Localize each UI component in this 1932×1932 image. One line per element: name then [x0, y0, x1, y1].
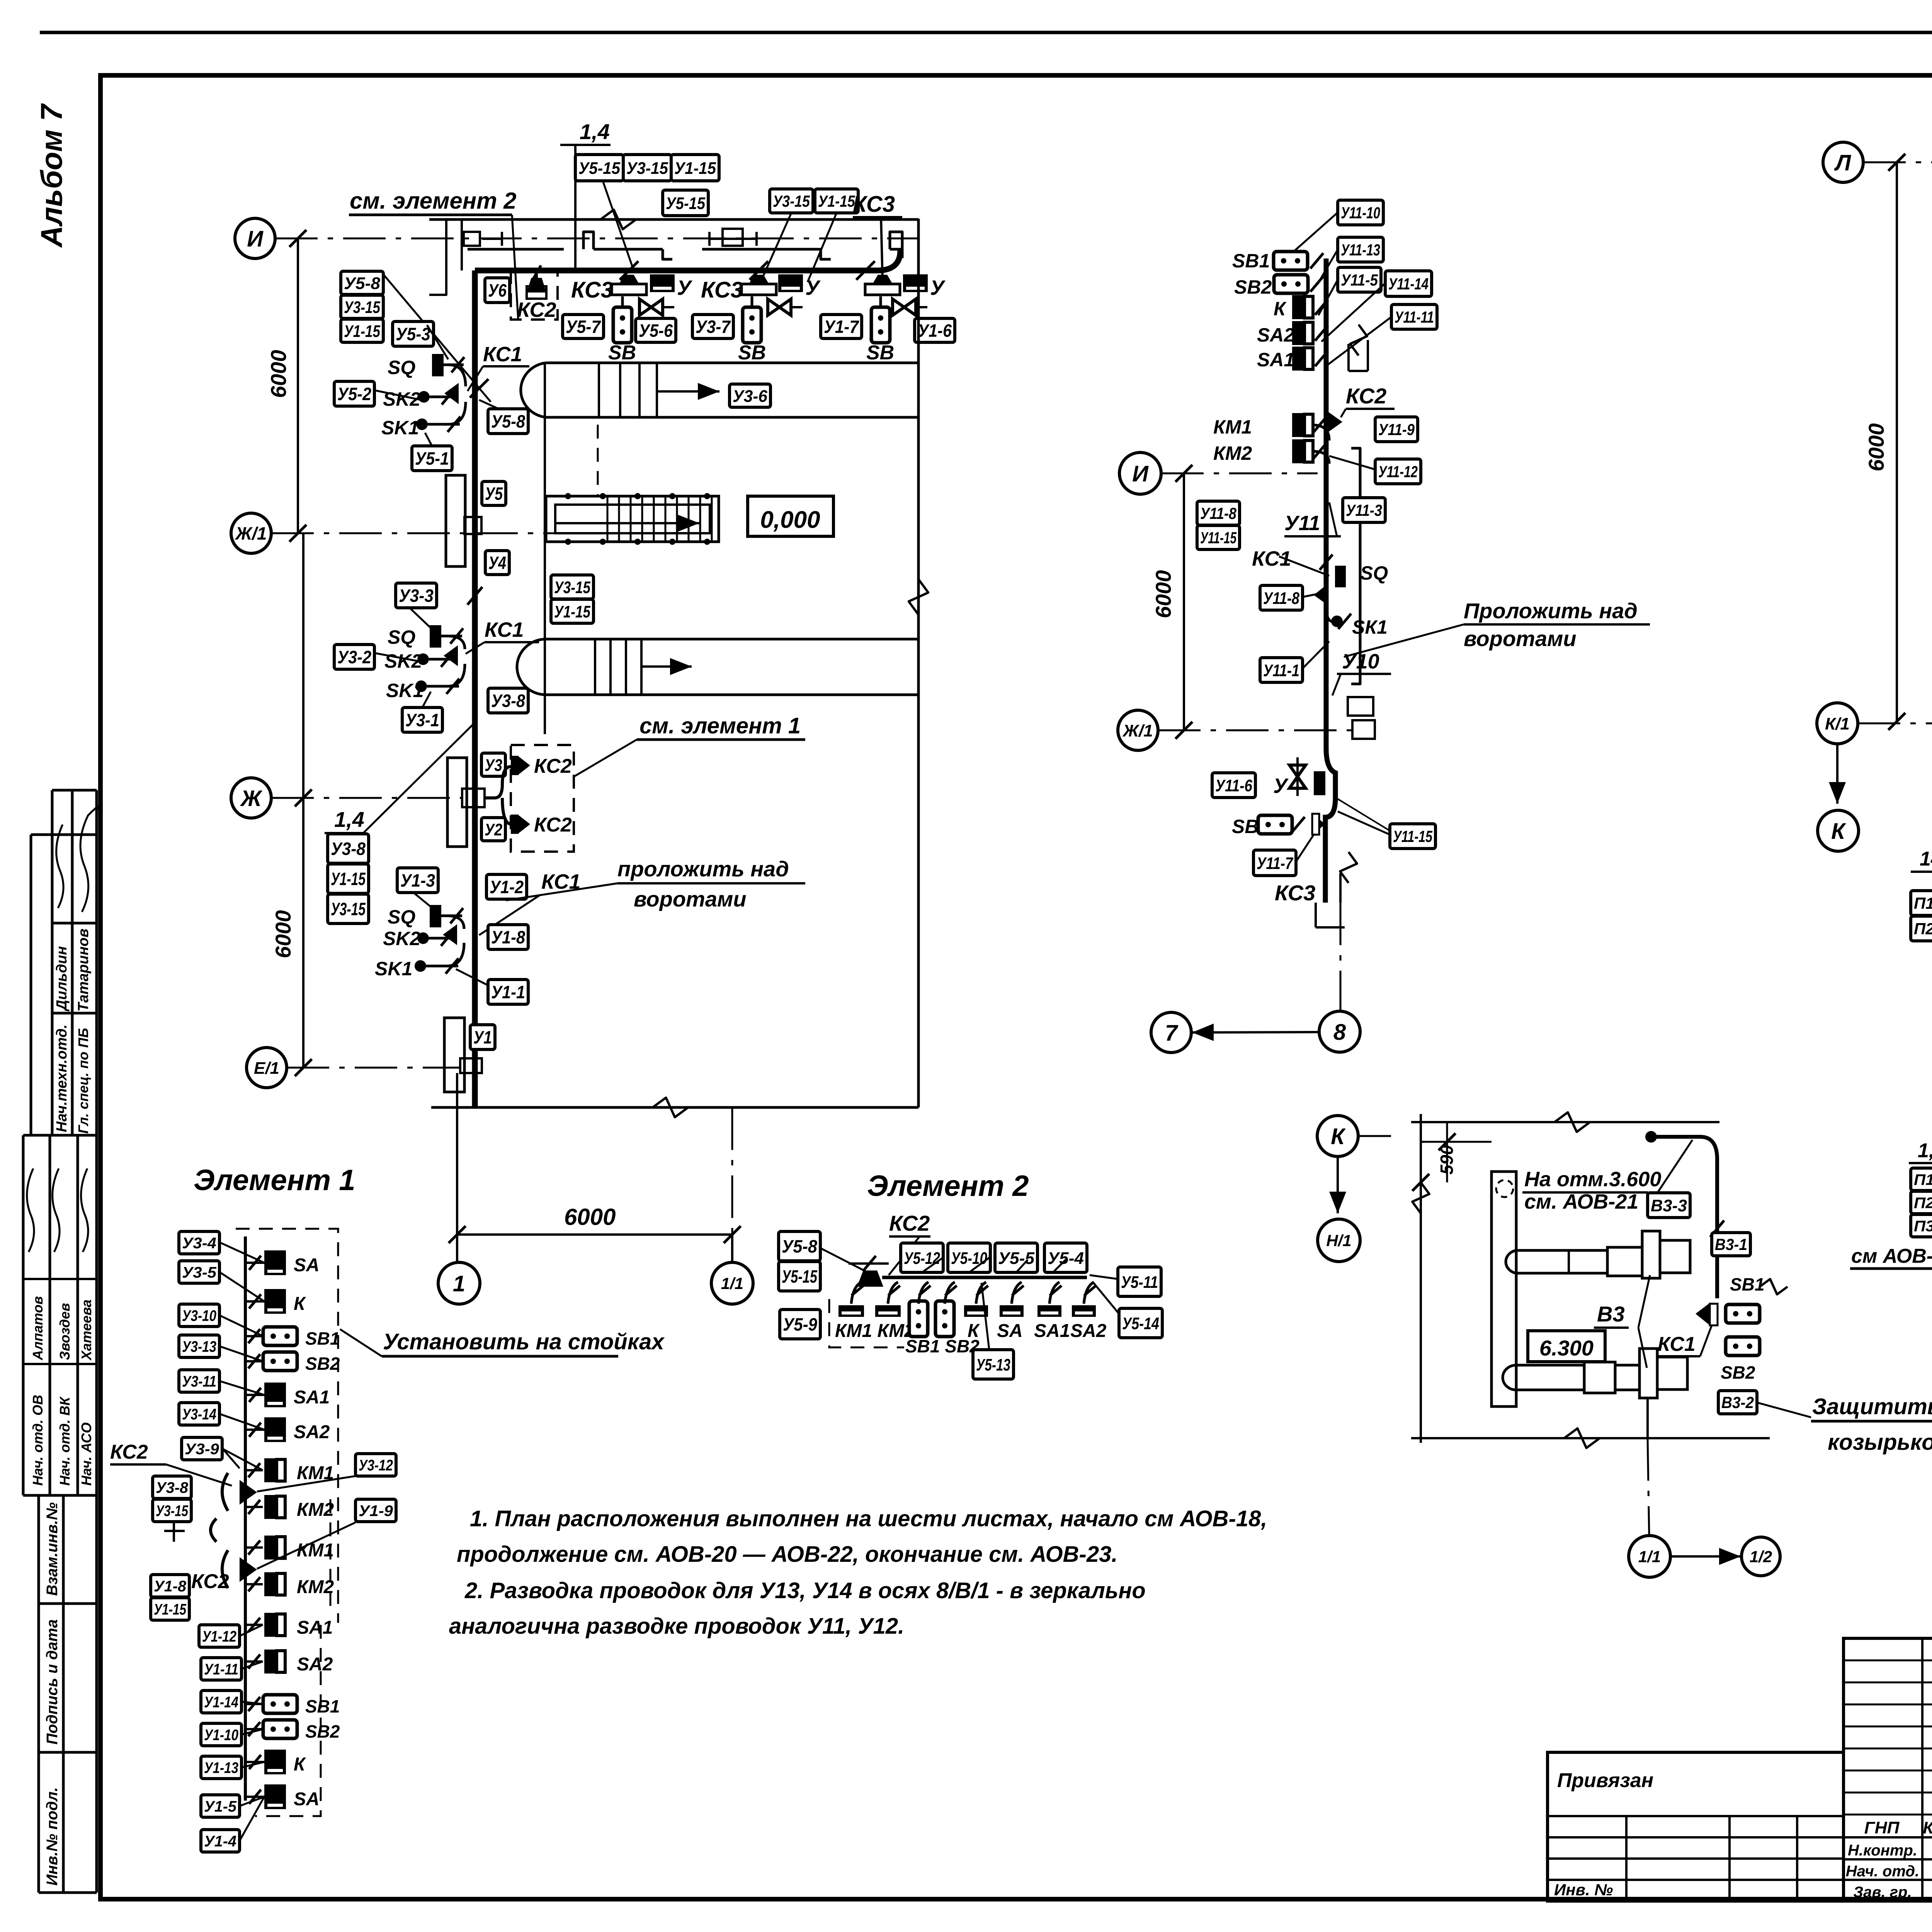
КС2 symbol lower — [518, 815, 530, 834]
svg-text:КС2: КС2 — [534, 814, 572, 836]
B3 drop to 1/1 — [1646, 1398, 1649, 1438]
svg-text:У: У — [1273, 774, 1289, 798]
svg-text:П3-1: П3-1 — [1914, 1218, 1932, 1235]
У3-8 У3-15 boxes element1 — [153, 1476, 191, 1498]
svg-text:SА2: SА2 — [1257, 324, 1294, 346]
svg-text:У3-15: У3-15 — [344, 298, 380, 317]
svg-text:У5-8: У5-8 — [782, 1236, 817, 1257]
svg-text:2. Разводка проводок для У1: 2. Разводка проводок для У13, У14 в осях… — [464, 1578, 1146, 1603]
svg-text:У5-14: У5-14 — [1122, 1314, 1159, 1333]
svg-text:SВ1: SВ1 — [305, 1696, 340, 1716]
У1 pilaster bottom — [444, 1018, 464, 1092]
svg-text:У3-4: У3-4 — [182, 1235, 216, 1252]
svg-text:SQ: SQ — [1360, 562, 1388, 584]
svg-text:П2-1: П2-1 — [1914, 920, 1932, 938]
У11-7 box — [1253, 850, 1296, 876]
label box У3-14 — [179, 1403, 219, 1425]
У5-8 У5-15 boxes element2 — [779, 1231, 820, 1261]
svg-text:У5-8: У5-8 — [491, 412, 525, 432]
stamp signatures block2 — [27, 1168, 34, 1252]
svg-text:КМ1 КМ2: КМ1 КМ2 — [835, 1321, 915, 1341]
svg-text:SА2: SА2 — [294, 1422, 330, 1442]
svg-text:У5-7: У5-7 — [566, 317, 601, 337]
svg-text:У1-10: У1-10 — [204, 1726, 238, 1743]
svg-text:У6: У6 — [488, 281, 507, 301]
svg-text:У5-1: У5-1 — [415, 449, 449, 469]
label box У5-15 single — [663, 190, 708, 216]
svg-text:SВ1: SВ1 — [1232, 250, 1270, 272]
svg-text:У5-8: У5-8 — [344, 274, 381, 293]
svg-text:воротами: воротами — [634, 887, 747, 911]
B3 bottom line — [1411, 1437, 1770, 1439]
У5-12 У5-10 У5-5 У5-4 box row — [901, 1243, 943, 1272]
элемент1 spine wire — [244, 1236, 247, 1801]
У11-11 box — [1391, 304, 1437, 329]
axis circle Ж/1 left plan — [231, 513, 271, 553]
svg-text:К: К — [1331, 1124, 1346, 1149]
svg-text:SА1: SА1 — [1257, 349, 1294, 371]
thick wire top horizontal — [475, 250, 900, 270]
svg-text:SВ: SВ — [608, 342, 636, 364]
circle Н/1 — [1318, 1219, 1360, 1262]
circle 1/2 bottom — [1742, 1537, 1780, 1576]
svg-text:У3-9: У3-9 — [185, 1440, 219, 1458]
right plan axis К/1 circle — [1817, 703, 1858, 744]
svg-text:SВ1: SВ1 — [1730, 1274, 1764, 1294]
circle 7 with arrow from 8 — [1151, 1012, 1191, 1053]
arrow К/1 to К — [1836, 744, 1838, 804]
svg-text:Альбом 7: Альбом 7 — [34, 103, 68, 248]
svg-text:У11-8: У11-8 — [1263, 589, 1299, 608]
У11-8 У11-15 boxes — [1197, 501, 1240, 525]
svg-text:У11-15: У11-15 — [1393, 827, 1432, 845]
central pit with dots — [546, 496, 719, 542]
axis circle Е/1 left plan — [247, 1048, 287, 1088]
svg-text:Л: Л — [1834, 150, 1851, 175]
B3 detail top line — [1411, 1121, 1719, 1123]
У5-13 box element2 — [973, 1350, 1014, 1379]
У11-8 box lower — [1260, 585, 1303, 610]
svg-text:1: 1 — [453, 1271, 465, 1296]
svg-text:1,4: 1,4 — [580, 119, 610, 144]
У1-3 box — [397, 868, 438, 893]
svg-text:Элемент 1: Элемент 1 — [194, 1164, 355, 1197]
svg-text:У1-15: У1-15 — [554, 602, 590, 621]
КС2 symbol lower element1 — [240, 1557, 257, 1582]
svg-text:В3-2: В3-2 — [1721, 1393, 1754, 1412]
bottom dimension line with circles 1 and 1/1 — [456, 1107, 458, 1235]
svg-text:П2-1: П2-1 — [1914, 1194, 1932, 1211]
SA comp2 — [264, 1784, 286, 1809]
svg-text:Нач. отд. ВК: Нач. отд. ВК — [57, 1396, 73, 1486]
У1-5 box — [201, 1795, 240, 1817]
svg-text:На отм.3.600: На отм.3.600 — [1524, 1168, 1661, 1191]
left stamp second block grid — [22, 1135, 25, 1495]
dash-dot down to circle 8 — [1340, 903, 1342, 1011]
svg-text:П1-1: П1-1 — [1914, 894, 1932, 912]
svg-text:Привязан: Привязан — [1557, 1769, 1653, 1792]
У1-2 box — [486, 874, 527, 899]
svg-text:ГНП: ГНП — [1864, 1818, 1900, 1837]
kc3 valve module U1 on top wall — [865, 275, 900, 295]
B3 wall bar — [1492, 1172, 1516, 1406]
element2 leader lines — [922, 1258, 943, 1272]
У5-3 box — [393, 321, 434, 346]
svg-text:6000: 6000 — [1864, 423, 1888, 471]
У1-11 box — [201, 1658, 241, 1680]
svg-text:П1-1: П1-1 — [1914, 1171, 1932, 1188]
элемент1 К component — [264, 1289, 286, 1314]
label box У3-9 — [182, 1437, 222, 1460]
svg-text:Дильдин: Дильдин — [54, 946, 70, 1012]
svg-text:У3-7: У3-7 — [696, 317, 731, 337]
svg-text:Защитить металлическим: Защитить металлическим — [1812, 1394, 1932, 1419]
КС2 triangle on spine — [1326, 410, 1342, 434]
У5-2 box — [334, 381, 374, 406]
middle plan axis И circle — [1119, 452, 1161, 494]
У11-13 box — [1338, 237, 1383, 262]
svg-text:Нач. отд. ОВ: Нач. отд. ОВ — [30, 1395, 46, 1486]
К comp2 — [264, 1750, 286, 1774]
У3-15 У1-15 boxes mid — [551, 575, 594, 599]
wire detail near Ж — [485, 767, 511, 798]
svg-text:SK1: SK1 — [375, 958, 412, 980]
svg-text:КС2: КС2 — [889, 1211, 930, 1235]
svg-text:У11-9: У11-9 — [1378, 420, 1415, 439]
К SA SA1 SA2 blocks element2 — [964, 1305, 988, 1317]
svg-text:У10: У10 — [1342, 650, 1379, 673]
svg-text:КС3: КС3 — [571, 277, 613, 303]
svg-text:Каростелев: Каростелев — [1923, 1818, 1932, 1837]
svg-text:продолжение см. АОВ-20 — АОВ: продолжение см. АОВ-20 — АОВ-22, окончан… — [457, 1542, 1117, 1567]
У1 door rect — [460, 1058, 482, 1073]
svg-text:SQ: SQ — [388, 906, 415, 928]
svg-text:У11-6: У11-6 — [1215, 776, 1252, 795]
axis И dash-dot line — [275, 238, 918, 240]
svg-text:6000: 6000 — [271, 910, 295, 958]
У1-1 box — [488, 980, 528, 1004]
SA1 comp2 element1 — [264, 1613, 285, 1637]
svg-text:КМ1: КМ1 — [1213, 416, 1252, 438]
svg-text:КС1: КС1 — [483, 343, 522, 366]
svg-text:У11-10: У11-10 — [1341, 204, 1380, 222]
svg-text:Взам.инв.№: Взам.инв.№ — [44, 1502, 61, 1596]
svg-text:SВ2: SВ2 — [305, 1721, 340, 1742]
svg-text:И: И — [247, 226, 264, 252]
middle Ж/1 dash-dot — [1158, 730, 1359, 731]
svg-text:6000: 6000 — [266, 350, 291, 398]
middle plan axis Ж/1 circle — [1118, 710, 1158, 750]
south wall of left building — [431, 1106, 918, 1109]
leader lines from label row to wall — [603, 181, 634, 270]
svg-text:У11-11: У11-11 — [1395, 308, 1434, 326]
svg-text:У1-15: У1-15 — [154, 1601, 187, 1618]
svg-text:Нач. отд.: Нач. отд. — [1846, 1863, 1919, 1880]
svg-text:1/2: 1/2 — [1750, 1548, 1772, 1566]
У1-13 box — [201, 1756, 241, 1779]
svg-text:К: К — [1831, 819, 1846, 844]
svg-text:Нач. АСО: Нач. АСО — [78, 1422, 94, 1486]
У4 box — [485, 551, 509, 575]
svg-text:SА1: SА1 — [1034, 1321, 1070, 1341]
svg-text:У1-1: У1-1 — [491, 982, 525, 1002]
svg-text:У1-8: У1-8 — [154, 1578, 187, 1595]
svg-text:И: И — [1132, 461, 1149, 486]
element2 riser wires — [851, 1282, 861, 1304]
svg-text:У5: У5 — [485, 484, 503, 504]
second КМ pair element1 — [264, 1536, 285, 1560]
У5-9 box element2 — [780, 1310, 820, 1339]
B3 SB2 connector — [1726, 1337, 1760, 1355]
У5-8 У3-15 У1-15 stacked boxes — [341, 271, 383, 294]
У5-8 lower box — [488, 409, 528, 434]
svg-text:Н.контр.: Н.контр. — [1848, 1842, 1917, 1859]
элемент1 dashed bracket right — [236, 1229, 338, 1623]
inspection pit capsule 3 — [517, 639, 918, 695]
svg-text:У5-4: У5-4 — [1048, 1249, 1084, 1268]
right plan left vertical dim line — [1896, 162, 1898, 721]
svg-text:К: К — [1274, 298, 1287, 320]
svg-text:К/1: К/1 — [1825, 714, 1850, 733]
svg-text:SВ: SВ — [1232, 816, 1259, 837]
svg-text:SK1: SK1 — [381, 417, 419, 439]
У1-12 box element1 — [199, 1625, 240, 1647]
west wall pilaster and door — [446, 475, 465, 566]
svg-text:6000: 6000 — [1151, 570, 1175, 618]
svg-text:Инв. №: Инв. № — [1554, 1881, 1613, 1899]
svg-text:У1-2: У1-2 — [490, 877, 524, 897]
У3-8 У1-15 У3-15 stacked boxes — [328, 834, 369, 863]
svg-text:У3-10: У3-10 — [182, 1307, 216, 1324]
У3 box — [481, 753, 505, 776]
svg-text:У5-13: У5-13 — [976, 1355, 1010, 1374]
svg-text:У: У — [930, 276, 946, 299]
У1-10 box — [201, 1723, 241, 1746]
элемент1 КМ1 component — [264, 1458, 285, 1482]
У11-9 box — [1375, 417, 1418, 442]
svg-text:У1-15: У1-15 — [331, 869, 366, 889]
B3 thick feed wire — [1645, 1131, 1657, 1143]
circle К middle — [1317, 1116, 1358, 1156]
svg-text:Ж/1: Ж/1 — [1122, 721, 1153, 740]
У3 cluster boxes — [396, 583, 437, 608]
door symbol middle — [709, 238, 757, 240]
svg-text:У1-15: У1-15 — [674, 159, 716, 178]
SB2 conn2 — [263, 1720, 297, 1738]
label box У3-13 — [179, 1335, 219, 1357]
svg-text:У1-14: У1-14 — [204, 1694, 238, 1711]
svg-text:У11-1: У11-1 — [1263, 661, 1299, 680]
svg-text:8: 8 — [1333, 1020, 1346, 1045]
У11-3 box — [1343, 498, 1385, 522]
svg-text:1. План расположения выполнен: 1. План расположения выполнен на шести л… — [470, 1506, 1267, 1531]
svg-text:SА: SА — [294, 1255, 320, 1276]
svg-text:SQ: SQ — [388, 626, 415, 648]
svg-text:У1-15: У1-15 — [344, 322, 380, 341]
svg-text:Алпатов: Алпатов — [30, 1296, 46, 1361]
label box У3-10 — [179, 1304, 219, 1327]
element2 horizontal wire — [882, 1276, 1087, 1279]
svg-text:14: 14 — [1920, 848, 1932, 870]
svg-text:У1-3: У1-3 — [400, 871, 435, 891]
svg-text:У11-13: У11-13 — [1341, 241, 1380, 259]
svg-text:SВ: SВ — [866, 342, 894, 364]
У5-11 box element2 — [1118, 1267, 1161, 1296]
svg-text:КС1: КС1 — [1658, 1333, 1696, 1355]
svg-text:У1-8: У1-8 — [491, 927, 525, 947]
stamp signature Дильдин — [56, 825, 63, 908]
svg-text:SА1: SА1 — [294, 1387, 330, 1408]
svg-text:У3-5: У3-5 — [182, 1264, 217, 1281]
svg-text:У5-15: У5-15 — [782, 1267, 818, 1287]
КС1 triangle symbol U5 — [444, 383, 459, 404]
label box У3-5 — [179, 1261, 219, 1283]
У1-8 box — [488, 925, 528, 949]
stamp signature Татаринов — [80, 806, 99, 912]
SB1 conn2 — [263, 1695, 297, 1713]
title block: Привязан table — [1548, 1752, 1844, 1901]
svg-text:У11: У11 — [1284, 512, 1320, 535]
У5-14 box element2 — [1119, 1308, 1162, 1338]
svg-text:КС2: КС2 — [1346, 384, 1386, 408]
svg-text:У3-14: У3-14 — [182, 1406, 216, 1423]
svg-text:У2: У2 — [485, 820, 502, 839]
svg-text:У11-8: У11-8 — [1200, 504, 1237, 522]
svg-text:SВ2: SВ2 — [1234, 276, 1272, 298]
svg-text:SK2: SK2 — [383, 928, 420, 949]
элемент1 SA2 component — [264, 1417, 286, 1442]
svg-text:КС2: КС2 — [517, 298, 556, 321]
svg-text:К: К — [294, 1754, 306, 1775]
svg-text:Хатеева: Хатеева — [78, 1299, 94, 1361]
door symbol left — [464, 232, 480, 246]
svg-text:SQ: SQ — [388, 357, 415, 378]
КС2 dashed box and symbol — [511, 270, 558, 320]
svg-text:SВ2: SВ2 — [305, 1354, 340, 1374]
axis Ж/1 dash-dot line — [271, 532, 603, 534]
svg-text:Нач.техн.отд.: Нач.техн.отд. — [54, 1024, 70, 1132]
КС2 wire break symbol — [1347, 344, 1350, 371]
dashed bracket element2 — [829, 1299, 904, 1347]
КС1 symbol B3 — [1696, 1303, 1710, 1325]
wall pilaster at Ж axis — [447, 758, 467, 847]
svg-text:воротами: воротами — [1464, 626, 1577, 651]
svg-text:У3-3: У3-3 — [399, 586, 434, 606]
svg-text:У11-7: У11-7 — [1257, 854, 1294, 873]
svg-text:проложить над: проложить над — [617, 857, 789, 881]
svg-text:В3-3: В3-3 — [1651, 1196, 1687, 1215]
У11-14 box — [1385, 271, 1432, 296]
svg-text:КМ2: КМ2 — [297, 1577, 334, 1597]
svg-text:Н/1: Н/1 — [1326, 1231, 1351, 1250]
элемент1 SB1 connector — [263, 1327, 297, 1345]
svg-text:SА1: SА1 — [297, 1617, 333, 1638]
svg-text:SВ1: SВ1 — [305, 1328, 340, 1349]
У1-14 box — [201, 1690, 241, 1713]
right plan axis Л circle — [1823, 142, 1863, 182]
label box У3-4 — [179, 1231, 219, 1254]
У11-12 box — [1375, 459, 1421, 484]
leader lines element1 left boxes — [219, 1242, 264, 1263]
svg-text:Зав. гр.: Зав. гр. — [1853, 1884, 1912, 1901]
svg-text:SА: SА — [294, 1789, 320, 1810]
У1-4 box — [201, 1830, 240, 1852]
У3-6 box — [730, 384, 770, 407]
SA2 comp2 — [264, 1650, 285, 1673]
svg-text:Установить на стойках: Установить на стойках — [383, 1329, 665, 1354]
axis Ж dash-dot line — [271, 797, 462, 799]
SB1 SB2 connectors element2 — [909, 1301, 928, 1337]
svg-text:У3-2: У3-2 — [337, 647, 371, 667]
svg-text:У3-8: У3-8 — [156, 1479, 189, 1496]
svg-text:У3-11: У3-11 — [182, 1373, 216, 1390]
svg-text:6.300: 6.300 — [1539, 1336, 1594, 1360]
wire vertical bottom segment — [456, 1073, 458, 1107]
svg-text:У3-15: У3-15 — [331, 899, 366, 919]
У3-1 box — [402, 707, 442, 732]
svg-text:КС2: КС2 — [110, 1441, 148, 1463]
axis circle И left plan — [235, 218, 275, 259]
svg-text:см. элемент 1: см. элемент 1 — [639, 713, 801, 738]
svg-text:6000: 6000 — [564, 1204, 616, 1230]
элемент1 SA component — [264, 1250, 286, 1275]
svg-text:У5-10: У5-10 — [951, 1249, 987, 1268]
svg-text:У3-15: У3-15 — [554, 578, 590, 597]
inspection pit capsule 1 — [521, 363, 918, 417]
элемент1 dashed view box — [511, 745, 574, 852]
svg-text:У5-5: У5-5 — [998, 1249, 1035, 1268]
axis Е/1 dash-dot line — [287, 1067, 461, 1069]
svg-text:У5-11: У5-11 — [1121, 1273, 1158, 1292]
КС2 trapezoid symbol element2 — [857, 1270, 883, 1287]
П1-1 П2-1 stacked boxes left — [1911, 891, 1932, 915]
svg-text:У1-12: У1-12 — [202, 1628, 236, 1645]
svg-text:У1-13: У1-13 — [204, 1759, 238, 1776]
middle И dash-dot — [1161, 473, 1318, 474]
svg-text:аналогична разводке проводок: аналогична разводке проводок У11, У12. — [449, 1614, 904, 1639]
элемент1 КМ2 component — [264, 1495, 285, 1519]
B3 detail left dim line — [1420, 1114, 1422, 1443]
building wall right of spine — [1351, 448, 1360, 684]
svg-text:см АОВ-21: см АОВ-21 — [1851, 1245, 1932, 1267]
КС1 triangle mid — [1314, 584, 1328, 605]
left top pilaster niche — [429, 219, 446, 295]
svg-text:У5-2: У5-2 — [337, 384, 371, 404]
В3-2 box — [1718, 1391, 1757, 1414]
У6 box — [485, 278, 510, 303]
svg-text:Звоздев: Звоздев — [57, 1303, 73, 1360]
svg-text:SВ2: SВ2 — [1721, 1362, 1755, 1383]
svg-text:см. АОВ-21: см. АОВ-21 — [1524, 1190, 1638, 1213]
svg-text:Подпись и дата: Подпись и дата — [44, 1619, 61, 1745]
left building north wall — [429, 218, 918, 221]
svg-text:В3-1: В3-1 — [1715, 1235, 1747, 1253]
svg-text:У3-1: У3-1 — [405, 710, 439, 730]
svg-text:Проложить над: Проложить над — [1464, 599, 1638, 623]
КС2 symbol upper — [518, 756, 530, 775]
tick on wall and leader 1,4 — [468, 587, 483, 605]
svg-text:SА: SА — [997, 1321, 1023, 1341]
элемент1 SA1 component — [264, 1383, 286, 1407]
svg-text:см. элемент 2: см. элемент 2 — [350, 188, 516, 214]
svg-text:КС2: КС2 — [191, 1570, 229, 1593]
svg-text:У11-12: У11-12 — [1378, 463, 1418, 481]
lower horn assembly — [1503, 1365, 1584, 1390]
svg-text:У1-5: У1-5 — [204, 1798, 237, 1815]
svg-text:У3-13: У3-13 — [182, 1338, 216, 1355]
У2 box — [481, 818, 505, 841]
svg-text:Гл. спец. по ПБ: Гл. спец. по ПБ — [75, 1028, 91, 1134]
